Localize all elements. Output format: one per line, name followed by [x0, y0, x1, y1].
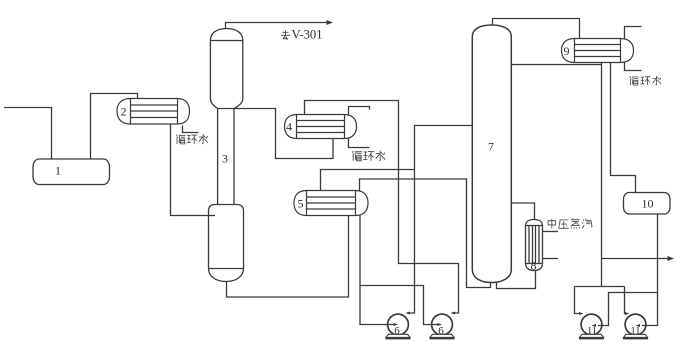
- svg-text:6: 6: [438, 325, 444, 337]
- svg-text:10: 10: [642, 197, 654, 211]
- svg-text:11: 11: [630, 326, 640, 337]
- svg-text:8: 8: [531, 259, 537, 273]
- svg-text:3: 3: [222, 152, 228, 166]
- svg-text:9: 9: [564, 44, 570, 58]
- svg-text:6: 6: [394, 325, 400, 337]
- svg-text:1: 1: [55, 164, 61, 178]
- svg-text:V-301: V-301: [292, 28, 323, 42]
- svg-text:7: 7: [488, 140, 494, 154]
- svg-text:11: 11: [587, 326, 597, 337]
- svg-text:4: 4: [286, 120, 292, 134]
- svg-text:2: 2: [121, 105, 127, 119]
- svg-text:5: 5: [298, 197, 304, 211]
